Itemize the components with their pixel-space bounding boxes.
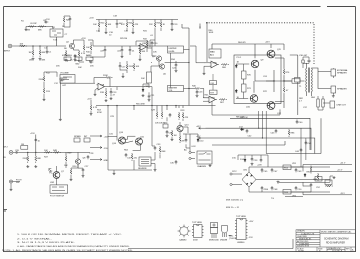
wire speaker feed <box>314 68 332 92</box>
svg-text:68K: 68K <box>37 158 41 160</box>
capacitor C3 <box>89 61 93 64</box>
wire U1A fb <box>94 78 110 94</box>
capacitor C34 <box>166 130 169 134</box>
ground bus resistors <box>105 31 108 34</box>
capacitor C21 <box>148 94 151 98</box>
regulator VR1 <box>283 165 291 194</box>
capacitor C38 <box>185 138 188 142</box>
wire volume drop <box>59 80 61 118</box>
svg-text:100K: 100K <box>209 32 214 34</box>
wire ch1 signal bus <box>93 46 155 48</box>
svg-text:MJE 15-- -- 31: MJE 15-- -- 31 <box>226 207 240 209</box>
resistor R66 <box>221 64 229 66</box>
wire drivers <box>124 136 141 150</box>
svg-text:R64 470: R64 470 <box>238 42 246 44</box>
wire reverb send <box>108 108 117 141</box>
relay box K1 <box>210 81 217 85</box>
wire AC to bridge <box>232 174 242 185</box>
reverb tank box <box>139 157 151 166</box>
ground R13 <box>43 98 46 101</box>
offpage arrow C <box>90 159 102 161</box>
wire C22 <box>175 61 177 69</box>
capacitor C42 <box>246 129 249 133</box>
transistor Q7 tremolo <box>53 172 60 179</box>
resistor R62 <box>179 135 181 143</box>
capacitor C33 <box>154 146 157 150</box>
resistor R28 <box>126 63 128 71</box>
svg-text:1. 100 K OR 1M. NOMINAL METER.: 1. 100 K OR 1M. NOMINAL METER. RESIST. T… <box>17 233 123 236</box>
resistor R63 diag <box>125 141 133 143</box>
transistor Q2 first stage <box>69 43 74 48</box>
svg-text:REV: REV <box>163 123 168 125</box>
resistor R9 <box>83 44 85 52</box>
ground R46 <box>34 165 37 168</box>
jack J1 input <box>8 44 13 48</box>
pot treble <box>64 57 71 62</box>
wire ch2 line <box>19 152 90 155</box>
wire stub above title <box>285 196 303 198</box>
small regulator box <box>315 177 332 185</box>
wire rail +41 <box>206 128 312 150</box>
ground com <box>333 176 336 179</box>
offpage arrow B <box>90 147 102 149</box>
jack J4 main speaker <box>331 86 336 95</box>
capacitor C19 <box>171 22 174 26</box>
resistor R22 <box>98 21 100 29</box>
wire vol to opamp <box>44 72 95 98</box>
ground R5 <box>39 58 42 61</box>
pot volume ch1 <box>60 75 75 84</box>
svg-text:220K: 220K <box>39 79 44 81</box>
svg-text:R55 470K: R55 470K <box>136 103 146 105</box>
resistor R1 series <box>19 45 27 47</box>
capacitor C8 <box>104 48 107 52</box>
capacitor C4b <box>74 54 77 58</box>
wire reverb return <box>160 113 167 158</box>
offpage arrow -41 <box>199 137 206 139</box>
capacitor C5 upper <box>69 17 72 21</box>
wire +15 bus top <box>96 20 178 23</box>
svg-text:CHASSIS: CHASSIS <box>197 165 206 168</box>
svg-text:+41 V: +41 V <box>340 163 346 165</box>
svg-text:MID: MID <box>76 64 80 66</box>
svg-text:1M: 1M <box>29 60 32 62</box>
capacitor C43 <box>275 129 278 133</box>
pot bass <box>86 57 93 62</box>
capacitor C25 <box>35 138 38 142</box>
svg-text:EXTERNAL: EXTERNAL <box>337 69 349 72</box>
svg-text:+15V: +15V <box>30 133 35 135</box>
wire low supply feed <box>183 134 198 151</box>
transistor Q5 <box>156 56 161 61</box>
svg-text:LEVEL: LEVEL <box>169 51 176 53</box>
op-amp U3A driver top <box>209 61 219 68</box>
wire mid band <box>120 61 127 75</box>
resistor R17 fb <box>105 77 113 79</box>
node G tick left border <box>4 210 8 212</box>
zener CR5 <box>304 173 306 177</box>
transistor Q8 osc <box>75 159 80 164</box>
offpage arrow +41 <box>199 127 206 129</box>
transistor Q14 reverb driver <box>118 137 125 144</box>
jack J5 footswitch <box>9 180 20 188</box>
ground C4b <box>74 58 77 61</box>
svg-text:+15 V: +15 V <box>337 169 343 171</box>
wire opamp inputs <box>203 63 209 101</box>
svg-text:SCHEMATIC DIAGRAM: SCHEMATIC DIAGRAM <box>324 238 348 241</box>
svg-text:-15 V: -15 V <box>340 193 345 195</box>
svg-text:NONE: NONE <box>298 250 305 252</box>
package TO-220 Q output <box>211 223 218 239</box>
capacitor C27 <box>82 168 85 172</box>
svg-text:+15V: +15V <box>87 99 92 101</box>
capacitor C18 <box>116 22 119 26</box>
resistor R58 <box>161 111 163 119</box>
junction dot <box>107 105 108 106</box>
capacitor C50 <box>295 186 298 190</box>
svg-text:DRAWN: DRAWN <box>297 230 305 233</box>
junction dot <box>133 105 134 106</box>
svg-text:117V: 117V <box>232 171 237 173</box>
svg-text:1M: 1M <box>29 52 32 54</box>
transistor Q10 lower driver <box>250 95 258 103</box>
ground op-amp <box>203 72 206 75</box>
svg-text:MUSIC MAN INC. ANAHEIM CAL.: MUSIC MAN INC. ANAHEIM CAL. <box>321 231 352 234</box>
pot reverb <box>163 124 168 128</box>
capacitor C52 <box>310 183 313 187</box>
AC secondary terminals <box>189 151 195 159</box>
wire R11 <box>90 42 92 54</box>
capacitor C41 <box>305 141 308 145</box>
svg-text:TOP VIEW: TOP VIEW <box>192 222 203 224</box>
resistor R18 <box>105 90 107 98</box>
limiter pot box <box>168 46 184 53</box>
offpage arrow A <box>90 135 102 137</box>
pot gain ch2 <box>21 146 28 150</box>
svg-text:INPUT: INPUT <box>4 51 11 53</box>
svg-text:SPEED: SPEED <box>74 136 81 138</box>
package TO-5 can U5 bottom view <box>178 225 191 238</box>
capacitor C49 <box>295 168 298 172</box>
svg-text:C36 .047: C36 .047 <box>299 55 308 57</box>
svg-text:2N5088: 2N5088 <box>220 240 228 242</box>
wire master to driver <box>184 89 208 98</box>
ground C21 <box>148 99 151 102</box>
package 14-pin DIP U7 top view <box>235 219 248 240</box>
resistor R57 <box>156 111 158 119</box>
wire osc <box>71 152 83 178</box>
transistor Q12 output bottom <box>267 102 275 110</box>
junction dot <box>166 105 167 106</box>
resistor R48 series <box>53 151 61 153</box>
wire ch1 input line <box>13 37 66 50</box>
svg-text:4. ALL CAPACITANCE VALUES ARE: 4. ALL CAPACITANCE VALUES ARE IN MICROFA… <box>17 245 131 248</box>
capacitor C35 <box>175 160 178 164</box>
resistor R4 <box>32 49 34 57</box>
lamp opto arrows <box>49 169 53 175</box>
transistor Q6 <box>159 64 164 69</box>
ground tone <box>121 55 124 58</box>
ground osc <box>70 178 73 181</box>
resistor R20 upper <box>63 16 65 24</box>
svg-text:BIAS: BIAS <box>210 51 215 54</box>
package TO-92 Q small signal <box>222 226 232 238</box>
resistor R67 <box>219 99 227 101</box>
svg-text:REV: REV <box>346 248 351 250</box>
wire Q7 <box>57 155 67 185</box>
wire limiter <box>147 45 190 87</box>
diode D12 <box>240 128 244 130</box>
resistor R90 <box>310 166 312 174</box>
svg-text:1M: 1M <box>27 30 30 32</box>
resistor R92 <box>325 185 333 187</box>
svg-text:1M: 1M <box>21 144 24 146</box>
svg-text:CA3080: CA3080 <box>179 239 187 242</box>
svg-text:1M: 1M <box>174 135 177 137</box>
svg-text:TG: TG <box>271 198 274 200</box>
resistor R50 <box>70 168 72 176</box>
svg-text:ADJ: ADJ <box>210 54 214 57</box>
resistor R25 <box>132 21 134 29</box>
ground aux <box>251 163 254 166</box>
resistor R65 <box>131 153 133 161</box>
wire upper stub <box>64 16 70 27</box>
ground C23 <box>196 94 199 97</box>
wire B+ drop <box>206 23 208 62</box>
tremolo depth pot <box>74 138 90 142</box>
ground tank <box>154 169 157 172</box>
wire U1A out <box>106 87 152 106</box>
resistor R49 <box>65 155 67 163</box>
svg-text:NOTE: 1. ALL RESISTANCE VALUE: NOTE: 1. ALL RESISTANCE VALUES ARE IN OH… <box>2 249 134 252</box>
ground volume <box>59 118 62 121</box>
transistor Q15 reverb driver <box>135 138 142 145</box>
diode D14 <box>244 158 246 162</box>
transistor Q9 upper driver <box>251 60 259 68</box>
wire mid verticals <box>99 26 172 46</box>
resistor R61 <box>182 112 184 120</box>
svg-text:BASS: BASS <box>86 54 92 57</box>
wire PS mid bus <box>256 179 330 181</box>
svg-text:FOOT SWITCH: FOOT SWITCH <box>50 196 65 198</box>
wire right bus <box>275 58 292 108</box>
resistor R29 <box>133 63 135 71</box>
svg-text:220K: 220K <box>23 158 28 160</box>
wire +15 out <box>291 165 352 172</box>
wire Q13 <box>179 120 188 135</box>
resistor R26 <box>154 21 156 29</box>
wire PS bus top <box>262 167 330 192</box>
wire rail -41 <box>206 118 322 153</box>
svg-text:MJE 15030/31 = Q: MJE 15030/31 = Q <box>226 200 244 202</box>
node B+ box <box>295 78 301 83</box>
resistor R69 <box>171 130 173 138</box>
ground reverb pot <box>166 134 169 137</box>
wire Q2 collector <box>73 40 84 62</box>
ground CR2 <box>142 94 145 97</box>
svg-text:LDR: LDR <box>50 182 55 184</box>
wire reg mid <box>303 182 311 192</box>
node TP1 stub <box>199 24 201 27</box>
ground R45 <box>26 165 29 168</box>
capacitor C54 <box>260 158 263 162</box>
svg-text:+41V: +41V <box>265 42 270 44</box>
resistor R23 <box>105 21 107 29</box>
capacitor C32 <box>125 153 128 157</box>
dashed enclosure power amp board <box>206 23 314 64</box>
ground reverb rail <box>113 172 116 175</box>
resistor R91 <box>317 173 319 181</box>
capacitor C53 <box>251 157 254 161</box>
resistor R59 <box>178 112 180 120</box>
ground bias bus <box>25 28 28 31</box>
wire rail aux <box>212 141 285 145</box>
driver board box <box>234 55 281 104</box>
diode D9 left <box>235 89 237 93</box>
notes text block <box>2 233 134 252</box>
relay box K2 <box>210 90 217 94</box>
wire right drop B <box>305 138 307 160</box>
wire ch1 out to power amp <box>190 46 205 63</box>
wire limiter row to vertical <box>151 62 189 64</box>
pot limiter attack <box>147 72 152 83</box>
wire long vertical feed <box>182 24 189 106</box>
resistor R56 <box>90 104 92 112</box>
diode D10 <box>197 138 199 142</box>
bridge rectifier CR1 <box>242 167 262 192</box>
svg-text:+15V: +15V <box>89 18 94 20</box>
svg-text:2100-RD-A: 2100-RD-A <box>332 249 343 252</box>
resistor R13 <box>43 87 45 95</box>
svg-text:ISSUED 8/78: ISSUED 8/78 <box>297 246 310 248</box>
svg-text:-41V: -41V <box>196 136 201 138</box>
jack J3 external speaker <box>331 68 336 78</box>
wire tank <box>151 108 155 169</box>
ground C13 <box>110 97 113 100</box>
capacitor C44 <box>300 148 303 152</box>
svg-text:-15V: -15V <box>249 237 254 239</box>
wire U1B feedback <box>136 40 155 47</box>
wire right drop A <box>300 128 302 167</box>
svg-text:6.3V: 6.3V <box>192 146 197 148</box>
op-amp U3B driver bottom <box>207 96 217 103</box>
resistor R7 <box>65 50 67 58</box>
capacitor C10 <box>129 48 132 52</box>
resistor R24 <box>126 21 128 29</box>
wire top rail +41V <box>212 44 284 58</box>
capacitor C40 <box>296 120 299 124</box>
svg-text:R25 1M: R25 1M <box>120 38 127 40</box>
wire reverb bottom rail <box>108 108 152 172</box>
bias stack resistors <box>236 64 249 99</box>
svg-text:+15V: +15V <box>249 221 254 223</box>
resistor R27 <box>160 21 162 29</box>
resistor R46 <box>35 155 37 163</box>
svg-text:+20V: +20V <box>257 165 262 167</box>
package 8-pin DIP U6 top view <box>192 225 204 238</box>
wire +15 drop ch2 <box>35 135 37 153</box>
svg-text:MJE15030: MJE15030 <box>209 240 219 242</box>
jack J2 input ch2 <box>9 151 14 155</box>
resistor R32 <box>146 40 148 48</box>
svg-text:C6 20P: C6 20P <box>30 23 37 25</box>
bias box V2 <box>209 49 221 58</box>
resistor R3 <box>38 26 46 28</box>
capacitor C30 <box>169 113 172 117</box>
wire top bias bus ch1 <box>26 27 53 30</box>
wire rail top <box>230 118 310 150</box>
wire -15 out <box>291 192 352 195</box>
svg-text:+15V: +15V <box>81 38 86 40</box>
ground R18 <box>105 99 108 102</box>
capacitor C47 <box>271 168 274 172</box>
svg-text:3. N.C B 1.5,3 V MOD PLATE.: 3. N.C B 1.5,3 V MOD PLATE. <box>17 241 76 244</box>
svg-text:+41V: +41V <box>196 126 201 128</box>
resistor R2 <box>28 26 36 28</box>
svg-text:LINE OUT: LINE OUT <box>337 105 347 107</box>
resistor R47 series <box>44 151 52 153</box>
wire aux supply row <box>238 155 268 167</box>
resistor R12 <box>43 75 45 83</box>
ground C22 <box>175 69 178 72</box>
capacitor C13 <box>110 90 113 94</box>
svg-text:4.7K: 4.7K <box>93 107 98 109</box>
transformer T1 <box>306 63 314 96</box>
feedback wire <box>212 101 280 115</box>
capacitor C9 <box>121 48 124 52</box>
svg-text:SPEAKER: SPEAKER <box>337 88 347 91</box>
ground mid band <box>122 75 125 78</box>
svg-text:R85 2.2K: R85 2.2K <box>236 116 245 118</box>
pot master volume <box>168 86 184 92</box>
svg-text:+15V: +15V <box>45 19 50 21</box>
svg-text:LM3900: LM3900 <box>237 242 245 244</box>
capacitor C48 <box>271 186 274 190</box>
wire Q2 out to bus <box>88 40 93 46</box>
svg-text:VOLUME: VOLUME <box>60 73 69 75</box>
wire left feed <box>290 55 298 115</box>
output choke L1 <box>266 79 305 83</box>
FET switch box Q1 <box>50 29 63 37</box>
capacitor C22 <box>175 63 178 67</box>
resistor R45 <box>27 155 29 163</box>
ground R4 <box>32 58 35 61</box>
resistor R5 <box>39 49 41 57</box>
svg-text:U3B: U3B <box>211 98 216 100</box>
resistor R8 <box>78 50 80 58</box>
op-amp U1A <box>96 83 106 90</box>
ground J5 <box>10 188 13 191</box>
resistor R30 <box>139 48 141 56</box>
op-amp U1B gain stage <box>138 44 148 51</box>
svg-text:2. 0.1 V SIGNAL.: 2. 0.1 V SIGNAL. <box>17 237 53 240</box>
resistor R86 <box>288 129 290 137</box>
ground jacks <box>332 95 335 98</box>
title block <box>296 230 356 252</box>
capacitor C1 <box>46 50 49 54</box>
opto box footswitch <box>50 185 68 193</box>
filter cap C46 <box>261 186 264 190</box>
svg-text:LIMITER: LIMITER <box>169 48 177 50</box>
wire left col <box>90 100 92 113</box>
diode D8 left <box>235 64 237 68</box>
wire ground return bottom <box>128 239 293 249</box>
wire relay links <box>212 74 214 90</box>
wire drops from amp <box>259 111 267 154</box>
ground U1A <box>94 93 97 96</box>
svg-text:SPEAKER: SPEAKER <box>337 72 347 75</box>
ground chassis <box>209 164 212 167</box>
